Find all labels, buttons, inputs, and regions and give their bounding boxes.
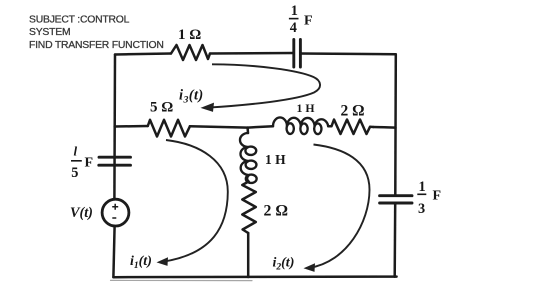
- wire middle: center node to coil: [248, 126, 273, 127]
- svg-text:2 Ω: 2 Ω: [264, 203, 289, 220]
- svg-text:SUBJECT :CONTROL: SUBJECT :CONTROL: [29, 15, 130, 26]
- label 1/5 F: [71, 144, 93, 181]
- voltage source V(t) circle: [102, 199, 129, 226]
- source polarity marks: [112, 204, 118, 218]
- arrowhead i3: [201, 103, 215, 112]
- svg-text:F: F: [85, 156, 94, 171]
- svg-text:1 H: 1 H: [265, 152, 286, 167]
- resistor R 1ohm: [171, 45, 210, 60]
- capacitor C 1/5F plates: [99, 156, 131, 159]
- arrowhead i2: [304, 263, 316, 272]
- wire left vertical (top corner to 1/5F cap): [113, 55, 116, 200]
- svg-text:1: 1: [419, 179, 426, 195]
- wire middle: 2ohm to right wire: [373, 126, 395, 129]
- capacitor C 1/3F plates: [380, 194, 412, 197]
- label 1/3 F: [418, 179, 441, 217]
- svg-text:l: l: [74, 144, 78, 159]
- resistor R 2ohm vertical: [242, 182, 256, 234]
- svg-text:F: F: [433, 189, 442, 204]
- svg-text:1: 1: [291, 3, 298, 19]
- svg-text:SYSTEM: SYSTEM: [29, 27, 70, 38]
- resistor R 5ohm: [148, 120, 190, 137]
- wire center branch stub: [246, 128, 249, 133]
- svg-text:5: 5: [71, 165, 78, 181]
- svg-text:1 H: 1 H: [297, 101, 315, 115]
- wire center branch to bottom: [247, 233, 250, 277]
- wire middle horizontal: left wire to 5ohm: [115, 125, 148, 128]
- svg-text:1 Ω: 1 Ω: [178, 27, 201, 43]
- wire bottom: [113, 275, 396, 278]
- svg-text:i3(t): i3(t): [179, 88, 204, 106]
- resistor R 2ohm top: [328, 120, 373, 135]
- mesh current arc i1: [163, 140, 228, 262]
- wire bottom scan shadow: [111, 279, 253, 281]
- svg-text:F: F: [304, 14, 313, 29]
- label 1/4 F: [290, 3, 313, 36]
- mesh arrows: [163, 64, 370, 267]
- wire right vertical lower: [393, 204, 396, 277]
- wire top middle segment: [210, 52, 294, 55]
- wire top right segment: [300, 52, 395, 55]
- svg-text:5 Ω: 5 Ω: [150, 100, 173, 116]
- svg-text:i2(t): i2(t): [273, 256, 295, 273]
- wire left: source to bottom: [113, 226, 114, 277]
- svg-text:4: 4: [290, 20, 297, 36]
- svg-text:V(t): V(t): [70, 205, 93, 221]
- capacitor C 1/4F plates: [292, 40, 295, 68]
- wire top left segment: [115, 54, 171, 55]
- svg-text:i1(t): i1(t): [130, 254, 152, 271]
- mesh current arc i3: [209, 64, 321, 107]
- arrowhead i1: [157, 257, 169, 266]
- mesh current arc i2: [310, 145, 370, 268]
- inductor L 1H horizontal coil: [273, 117, 328, 134]
- wire right vertical upper: [394, 54, 397, 195]
- inductor L 1H vertical coil: [240, 133, 257, 183]
- svg-text:FIND TRANSFER FUNCTION: FIND TRANSFER FUNCTION: [29, 40, 164, 51]
- svg-text:3: 3: [418, 201, 425, 217]
- wire middle: 5ohm to center node: [190, 126, 248, 127]
- svg-text:2 Ω: 2 Ω: [341, 103, 365, 120]
